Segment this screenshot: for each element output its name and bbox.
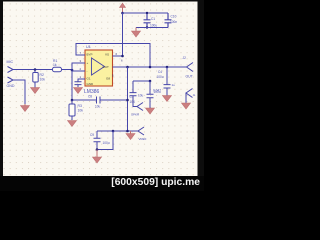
wire pin2 stub <box>72 70 85 72</box>
svg-text:J2: J2 <box>183 56 187 60</box>
ground bottom mid <box>126 131 135 140</box>
svg-text:100u: 100u <box>154 90 161 94</box>
svg-text:100u: 100u <box>157 75 164 79</box>
svg-text:-: - <box>87 69 88 73</box>
resistor R2 bias <box>33 70 38 88</box>
port speaker <box>137 103 143 111</box>
wire BYP riser <box>76 44 150 68</box>
svg-text:OUT: OUT <box>103 65 110 69</box>
node out 3 <box>166 66 169 69</box>
svg-text:GND: GND <box>7 84 15 88</box>
svg-text:10k: 10k <box>78 109 84 113</box>
capacitor C9 bottom <box>94 131 101 150</box>
ground R3 <box>68 121 77 127</box>
resistor R3 <box>69 100 75 120</box>
label R2 <box>40 73 46 82</box>
svg-text:1u: 1u <box>172 83 176 87</box>
wire input top <box>13 70 72 71</box>
port gnd right <box>186 89 193 98</box>
port bottom <box>138 127 144 135</box>
schematic sheet background <box>3 2 198 177</box>
capacitor C1 decoupling <box>144 13 151 28</box>
label pin numbers left <box>80 51 82 79</box>
node zobel <box>149 80 152 83</box>
capacitor C4 out <box>164 67 171 96</box>
wire bottom loop <box>97 131 113 150</box>
svg-text:VREF: VREF <box>139 137 147 141</box>
port output <box>187 63 194 72</box>
ground U1 <box>74 88 83 94</box>
svg-text:BYP: BYP <box>87 53 93 57</box>
ground input <box>21 104 30 112</box>
node bottom 2 <box>126 130 129 133</box>
capacitor C5 zobel <box>147 81 154 108</box>
label R3 <box>78 104 84 113</box>
ground C4 <box>163 96 172 102</box>
pin stubs left <box>78 55 86 79</box>
wire out down branch <box>127 67 129 131</box>
node R1 junction <box>71 69 74 72</box>
svg-text:+: + <box>87 61 89 65</box>
svg-text:10u: 10u <box>95 105 101 109</box>
power +V symbol <box>120 3 126 13</box>
ground zobel <box>146 108 155 114</box>
wire power rail down <box>122 13 124 56</box>
wire R1 to U1 <box>62 69 73 71</box>
svg-text:OUT: OUT <box>186 75 193 79</box>
ground C9 <box>93 150 102 164</box>
label C2 <box>170 15 177 25</box>
node out 2 <box>149 66 152 69</box>
capacitor C3 output <box>130 81 138 107</box>
ground R2 <box>31 88 40 94</box>
resistor R1 series <box>53 67 62 71</box>
svg-text:G8: G8 <box>106 77 110 81</box>
label C8 <box>88 95 101 109</box>
svg-text:104: 104 <box>130 100 136 104</box>
node bottom 1 <box>112 130 115 133</box>
wire cap bottom rail <box>136 27 168 29</box>
capacitor C8 feedback <box>72 97 128 104</box>
svg-text:MIC: MIC <box>7 60 14 64</box>
node out 1 <box>126 66 129 69</box>
svg-text:C9: C9 <box>90 133 94 137</box>
port J1 input <box>8 67 14 73</box>
node VS junction <box>121 55 124 58</box>
ground right <box>182 103 191 109</box>
svg-text:1k: 1k <box>53 63 57 67</box>
wire power rail right <box>123 12 169 14</box>
ground caps <box>132 28 141 38</box>
wire port gnd <box>13 80 25 104</box>
svg-text:C1: C1 <box>151 17 155 21</box>
label C9 <box>90 133 110 145</box>
svg-text:C4: C4 <box>158 70 162 74</box>
svg-text:100u: 100u <box>150 24 157 28</box>
port J1 ground pin <box>8 77 14 83</box>
watermark bar <box>0 176 204 191</box>
svg-text:R3: R3 <box>78 104 82 108</box>
svg-text:100u: 100u <box>103 141 110 145</box>
pin stub VS <box>113 55 123 57</box>
label R1 <box>53 59 57 67</box>
wire zobel tee <box>133 80 150 82</box>
capacitor C2 decoupling <box>165 13 172 28</box>
label C3 <box>138 94 144 98</box>
label C1 <box>150 17 157 28</box>
node power junction <box>121 12 124 15</box>
svg-text:R2: R2 <box>40 73 44 77</box>
capacitor C6 gain <box>75 79 82 87</box>
label C7 <box>130 95 136 104</box>
svg-text:C8: C8 <box>88 95 92 99</box>
svg-text:SPKR: SPKR <box>131 113 140 117</box>
pin stub OUT <box>113 66 128 68</box>
wire output main <box>128 66 187 68</box>
svg-text:U1: U1 <box>86 45 91 49</box>
svg-text:10u: 10u <box>138 94 144 98</box>
svg-text:G1: G1 <box>87 77 91 81</box>
node bottom loop <box>96 148 99 151</box>
svg-text:10k: 10k <box>40 78 46 82</box>
node C1 bottom <box>146 26 148 28</box>
svg-text:C10: C10 <box>171 15 177 19</box>
op-amp U1 LM386 body <box>85 50 113 86</box>
node C8 left <box>71 99 74 102</box>
node C8 right <box>126 99 129 102</box>
node input junction <box>34 68 37 71</box>
node C1 top <box>146 12 148 14</box>
label U1 pin names <box>87 53 111 87</box>
svg-text:VS: VS <box>105 53 109 57</box>
wire gnd right <box>185 93 187 103</box>
svg-text:GND: GND <box>87 82 95 86</box>
wire pin3 corner <box>72 63 85 100</box>
label C5 <box>153 89 161 93</box>
svg-text:100n: 100n <box>170 20 177 24</box>
wire bottom net <box>97 130 138 132</box>
